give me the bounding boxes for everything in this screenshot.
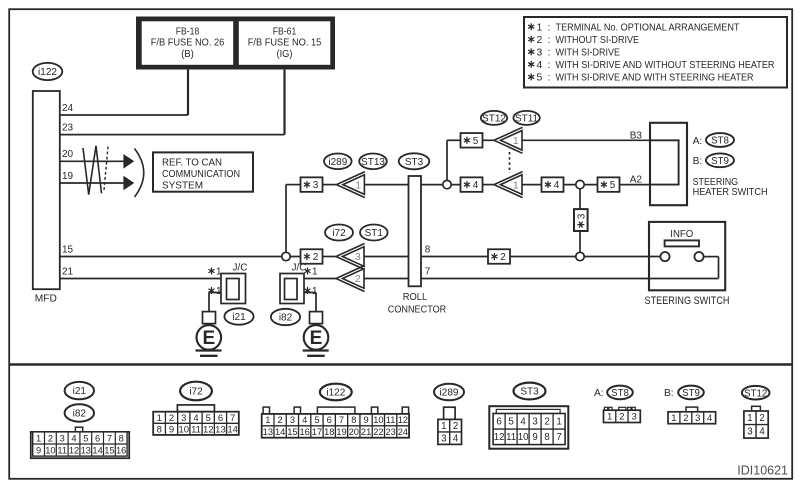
svg-text:(B): (B) xyxy=(181,49,194,60)
svg-text::: : xyxy=(548,22,551,33)
svg-text:2: 2 xyxy=(500,252,506,263)
svg-text:11: 11 xyxy=(386,415,396,425)
svg-text:16: 16 xyxy=(300,427,310,437)
svg-text::: : xyxy=(548,73,551,84)
svg-text:4: 4 xyxy=(473,180,479,191)
svg-text:1: 1 xyxy=(556,417,561,428)
svg-text:ST12: ST12 xyxy=(482,114,506,125)
svg-text:6: 6 xyxy=(95,433,100,443)
svg-text:1: 1 xyxy=(607,412,612,423)
svg-text::: : xyxy=(548,35,551,46)
svg-text:ST8: ST8 xyxy=(611,388,629,399)
svg-text:11: 11 xyxy=(57,445,67,455)
svg-text:15: 15 xyxy=(287,427,297,437)
svg-text:3: 3 xyxy=(355,251,361,263)
svg-text:REF. TO CAN: REF. TO CAN xyxy=(162,157,222,168)
svg-text:TERMINAL No. OPTIONAL ARRANGEM: TERMINAL No. OPTIONAL ARRANGEMENT xyxy=(556,22,741,33)
svg-text:4: 4 xyxy=(520,417,526,428)
svg-text:ROLL: ROLL xyxy=(403,292,428,303)
svg-text:12: 12 xyxy=(398,415,408,425)
svg-text:9: 9 xyxy=(363,415,368,425)
svg-text:1: 1 xyxy=(513,135,519,147)
svg-text:6: 6 xyxy=(327,415,332,425)
svg-text:2: 2 xyxy=(619,412,624,423)
svg-text:15: 15 xyxy=(104,445,114,455)
svg-text:3: 3 xyxy=(537,47,543,58)
svg-text:20: 20 xyxy=(62,149,74,160)
svg-text:E: E xyxy=(202,328,215,349)
svg-text:5: 5 xyxy=(314,415,319,425)
svg-text:8: 8 xyxy=(425,244,431,255)
svg-text:2: 2 xyxy=(537,35,543,46)
svg-text:ST11: ST11 xyxy=(515,114,539,125)
svg-text:13: 13 xyxy=(263,427,273,437)
svg-text:MFD: MFD xyxy=(35,294,57,305)
svg-text:3: 3 xyxy=(60,433,65,443)
svg-text:J/C: J/C xyxy=(233,263,248,274)
svg-text:i289: i289 xyxy=(328,157,347,168)
svg-text:5: 5 xyxy=(537,73,543,84)
svg-text:FB-18: FB-18 xyxy=(176,26,200,37)
svg-text:1: 1 xyxy=(671,413,676,424)
svg-text:ST8: ST8 xyxy=(711,136,729,147)
svg-text:B3: B3 xyxy=(630,130,643,141)
svg-text:8: 8 xyxy=(544,432,549,443)
svg-text:1: 1 xyxy=(312,267,318,278)
svg-text:J/C: J/C xyxy=(292,263,307,274)
svg-text:2: 2 xyxy=(169,413,174,424)
svg-text::: : xyxy=(548,60,551,71)
svg-text:5: 5 xyxy=(610,180,616,191)
svg-text:COMMUNICATION: COMMUNICATION xyxy=(162,169,240,180)
svg-text:WITH SI-DRIVE AND WITH STEERIN: WITH SI-DRIVE AND WITH STEERING HEATER xyxy=(556,73,754,84)
svg-text:2: 2 xyxy=(355,273,361,285)
svg-text:23: 23 xyxy=(62,122,74,133)
svg-text:4: 4 xyxy=(707,413,712,424)
svg-text:i82: i82 xyxy=(73,409,87,420)
svg-text:16: 16 xyxy=(116,445,126,455)
svg-text:7: 7 xyxy=(339,415,344,425)
svg-text:WITH SI-DRIVE AND WITHOUT STEE: WITH SI-DRIVE AND WITHOUT STEERING HEATE… xyxy=(556,60,775,71)
svg-text:8: 8 xyxy=(351,415,356,425)
svg-text:ST12: ST12 xyxy=(744,388,767,399)
svg-text:23: 23 xyxy=(385,427,395,437)
svg-text:SYSTEM: SYSTEM xyxy=(162,180,203,191)
svg-text:3: 3 xyxy=(181,413,186,424)
svg-text:20: 20 xyxy=(349,427,359,437)
svg-text:A:: A: xyxy=(693,136,703,147)
svg-text:i21: i21 xyxy=(73,386,87,397)
svg-text:ST1: ST1 xyxy=(365,228,384,239)
svg-text:11: 11 xyxy=(191,424,201,435)
svg-text:1: 1 xyxy=(157,413,162,424)
svg-text:B:: B: xyxy=(664,388,674,399)
svg-text:2: 2 xyxy=(683,413,688,424)
svg-text:10: 10 xyxy=(373,415,383,425)
svg-text:1: 1 xyxy=(216,267,222,278)
svg-text:(IG): (IG) xyxy=(277,49,293,60)
svg-text:9: 9 xyxy=(532,432,537,443)
svg-text:3: 3 xyxy=(747,427,752,438)
svg-text:A2: A2 xyxy=(630,175,643,186)
svg-text:7: 7 xyxy=(556,432,561,443)
svg-text:STEERING: STEERING xyxy=(693,177,739,188)
svg-text:7: 7 xyxy=(425,266,431,277)
svg-text:A:: A: xyxy=(594,388,604,399)
svg-text:F/B FUSE NO. 15: F/B FUSE NO. 15 xyxy=(248,38,322,49)
svg-text::: : xyxy=(548,47,551,58)
svg-text:ST3: ST3 xyxy=(405,157,424,168)
svg-text:1: 1 xyxy=(265,415,270,425)
svg-text:13: 13 xyxy=(215,424,226,435)
svg-text:6: 6 xyxy=(218,413,223,424)
svg-text:5: 5 xyxy=(83,433,88,443)
svg-text:8: 8 xyxy=(119,433,124,443)
svg-text:3: 3 xyxy=(576,213,587,219)
svg-text:7: 7 xyxy=(107,433,112,443)
svg-text:2: 2 xyxy=(313,252,319,263)
svg-text:24: 24 xyxy=(398,427,408,437)
svg-text:5: 5 xyxy=(508,417,513,428)
svg-text:6: 6 xyxy=(496,417,501,428)
svg-text:1: 1 xyxy=(513,179,519,191)
svg-text:1: 1 xyxy=(312,286,318,297)
svg-text:14: 14 xyxy=(227,424,238,435)
svg-text:4: 4 xyxy=(759,427,765,438)
svg-text:9: 9 xyxy=(169,424,174,435)
svg-text:1: 1 xyxy=(36,433,41,443)
svg-text:24: 24 xyxy=(62,103,74,114)
svg-text:4: 4 xyxy=(453,433,459,444)
svg-text:18: 18 xyxy=(324,427,334,437)
svg-text:E: E xyxy=(310,328,323,349)
svg-text:11: 11 xyxy=(506,432,516,443)
svg-text:14: 14 xyxy=(92,445,102,455)
svg-text:i21: i21 xyxy=(232,312,246,323)
svg-text:i122: i122 xyxy=(38,67,57,78)
svg-text:21: 21 xyxy=(361,427,371,437)
svg-text:WITH SI-DRIVE: WITH SI-DRIVE xyxy=(556,47,621,58)
svg-text:WITHOUT SI-DRIVE: WITHOUT SI-DRIVE xyxy=(556,35,640,46)
svg-text:CONNECTOR: CONNECTOR xyxy=(388,305,447,316)
svg-text:4: 4 xyxy=(193,413,198,424)
svg-text:7: 7 xyxy=(230,413,235,424)
svg-text:1: 1 xyxy=(355,179,361,191)
svg-text:1: 1 xyxy=(747,413,752,424)
svg-text:HEATER SWITCH: HEATER SWITCH xyxy=(693,187,768,198)
svg-text:2: 2 xyxy=(544,417,549,428)
svg-text:3: 3 xyxy=(313,180,319,191)
svg-text:2: 2 xyxy=(759,413,764,424)
svg-text:F/B FUSE NO. 26: F/B FUSE NO. 26 xyxy=(151,38,225,49)
svg-text:3: 3 xyxy=(441,433,446,444)
svg-text:ST9: ST9 xyxy=(682,388,700,399)
svg-text:1: 1 xyxy=(216,286,222,297)
svg-text:2: 2 xyxy=(48,433,53,443)
svg-text:17: 17 xyxy=(312,427,322,437)
svg-text:19: 19 xyxy=(336,427,346,437)
svg-text:STEERING SWITCH: STEERING SWITCH xyxy=(645,295,730,307)
svg-text:i72: i72 xyxy=(332,228,346,239)
svg-text:FB-61: FB-61 xyxy=(273,26,297,37)
svg-text:3: 3 xyxy=(695,413,700,424)
svg-text:5: 5 xyxy=(473,136,479,147)
svg-text:2: 2 xyxy=(278,415,283,425)
svg-text:ST3: ST3 xyxy=(520,387,539,398)
svg-text:22: 22 xyxy=(373,427,383,437)
svg-text:15: 15 xyxy=(62,244,74,255)
svg-text:3: 3 xyxy=(290,415,295,425)
svg-text:3: 3 xyxy=(632,412,637,423)
svg-text:12: 12 xyxy=(69,445,79,455)
svg-text:21: 21 xyxy=(62,266,74,277)
svg-text:ST13: ST13 xyxy=(361,157,385,168)
svg-text:12: 12 xyxy=(494,432,505,443)
svg-text:10: 10 xyxy=(45,445,55,455)
svg-text:8: 8 xyxy=(157,424,162,435)
svg-text:INFO: INFO xyxy=(670,229,693,240)
svg-text:4: 4 xyxy=(302,415,307,425)
svg-text:2: 2 xyxy=(453,421,458,432)
svg-text:4: 4 xyxy=(554,180,560,191)
svg-text:i72: i72 xyxy=(189,387,203,398)
svg-text:12: 12 xyxy=(203,424,214,435)
svg-text:4: 4 xyxy=(71,433,76,443)
svg-text:B:: B: xyxy=(693,156,703,167)
svg-text:3: 3 xyxy=(532,417,537,428)
svg-text:4: 4 xyxy=(537,60,543,71)
svg-text:1: 1 xyxy=(537,22,543,33)
svg-text:19: 19 xyxy=(62,171,74,182)
svg-text:9: 9 xyxy=(36,445,41,455)
svg-text:1: 1 xyxy=(441,421,446,432)
svg-text:14: 14 xyxy=(275,427,285,437)
svg-text:i289: i289 xyxy=(440,388,459,399)
svg-text:i122: i122 xyxy=(326,388,345,399)
svg-text:IDI10621: IDI10621 xyxy=(737,464,788,478)
svg-text:ST9: ST9 xyxy=(711,156,729,167)
svg-text:13: 13 xyxy=(81,445,91,455)
svg-text:10: 10 xyxy=(518,432,529,443)
svg-text:i82: i82 xyxy=(279,313,293,324)
svg-text:10: 10 xyxy=(178,424,189,435)
svg-text:5: 5 xyxy=(206,413,211,424)
